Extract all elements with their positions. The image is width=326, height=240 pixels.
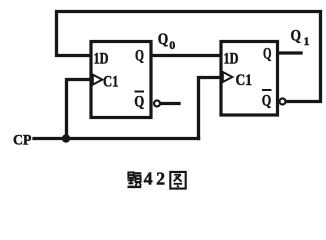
caption glyph ti (题) <box>128 172 142 186</box>
svg-text:C1: C1 <box>236 72 253 89</box>
svg-text:Q: Q <box>263 46 272 63</box>
svg-text:1D: 1D <box>224 51 239 68</box>
pin label Qbar of U2 (overbar) <box>262 89 272 91</box>
wire CP branch to FF1 C1 <box>67 80 90 139</box>
wire Q1bar output stub <box>161 102 179 105</box>
svg-text:Q: Q <box>135 48 144 65</box>
svg-text:1: 1 <box>304 34 310 48</box>
wire CP horizontal <box>34 137 199 140</box>
svg-text:42: 42 <box>144 168 166 188</box>
flip-flop U1 box <box>91 42 151 118</box>
svg-text:Q: Q <box>158 31 169 48</box>
inversion bubble on U1 Qbar <box>154 101 160 107</box>
pin label Qbar of U1 (overbar) <box>135 91 145 93</box>
svg-text:Q: Q <box>262 93 272 110</box>
wire Q0 (FF1 Q to FF2 1D) <box>152 54 221 57</box>
junction dot on CP line <box>62 134 70 142</box>
wire CP riser to FF2 C1 <box>199 78 220 139</box>
clock dynamic-input triangle of U2 <box>223 72 233 82</box>
svg-text:0: 0 <box>169 38 175 52</box>
wire feedback Q2bar to D1 (right vertical, top run, left vertical) <box>57 12 321 102</box>
inversion bubble on U2 Qbar <box>280 99 286 105</box>
flip-flop U2 box <box>221 42 278 116</box>
clock dynamic-input triangle of U1 <box>93 75 103 85</box>
svg-text:1D: 1D <box>94 51 109 68</box>
caption glyph tu (图) <box>170 172 185 189</box>
svg-text:Q: Q <box>291 28 302 45</box>
svg-text:C1: C1 <box>103 74 119 91</box>
svg-text:Q: Q <box>134 94 144 111</box>
svg-text:CP: CP <box>13 133 32 149</box>
wire Q1 output stub <box>278 51 301 54</box>
